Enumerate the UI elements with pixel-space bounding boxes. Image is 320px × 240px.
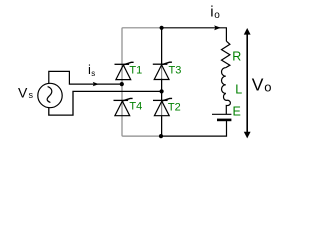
svg-text:V: V [18,84,28,100]
svg-text:T4: T4 [129,101,142,113]
svg-text:s: s [91,69,95,78]
svg-text:o: o [264,79,271,94]
svg-text:L: L [235,83,242,97]
svg-text:T2: T2 [168,102,181,114]
svg-text:i: i [210,4,213,21]
svg-text:R: R [232,49,241,63]
svg-text:E: E [233,104,241,118]
svg-text:o: o [214,10,220,21]
svg-text:V: V [252,74,264,94]
svg-text:s: s [29,90,34,100]
svg-text:T3: T3 [169,65,182,77]
svg-text:T1: T1 [129,65,142,77]
